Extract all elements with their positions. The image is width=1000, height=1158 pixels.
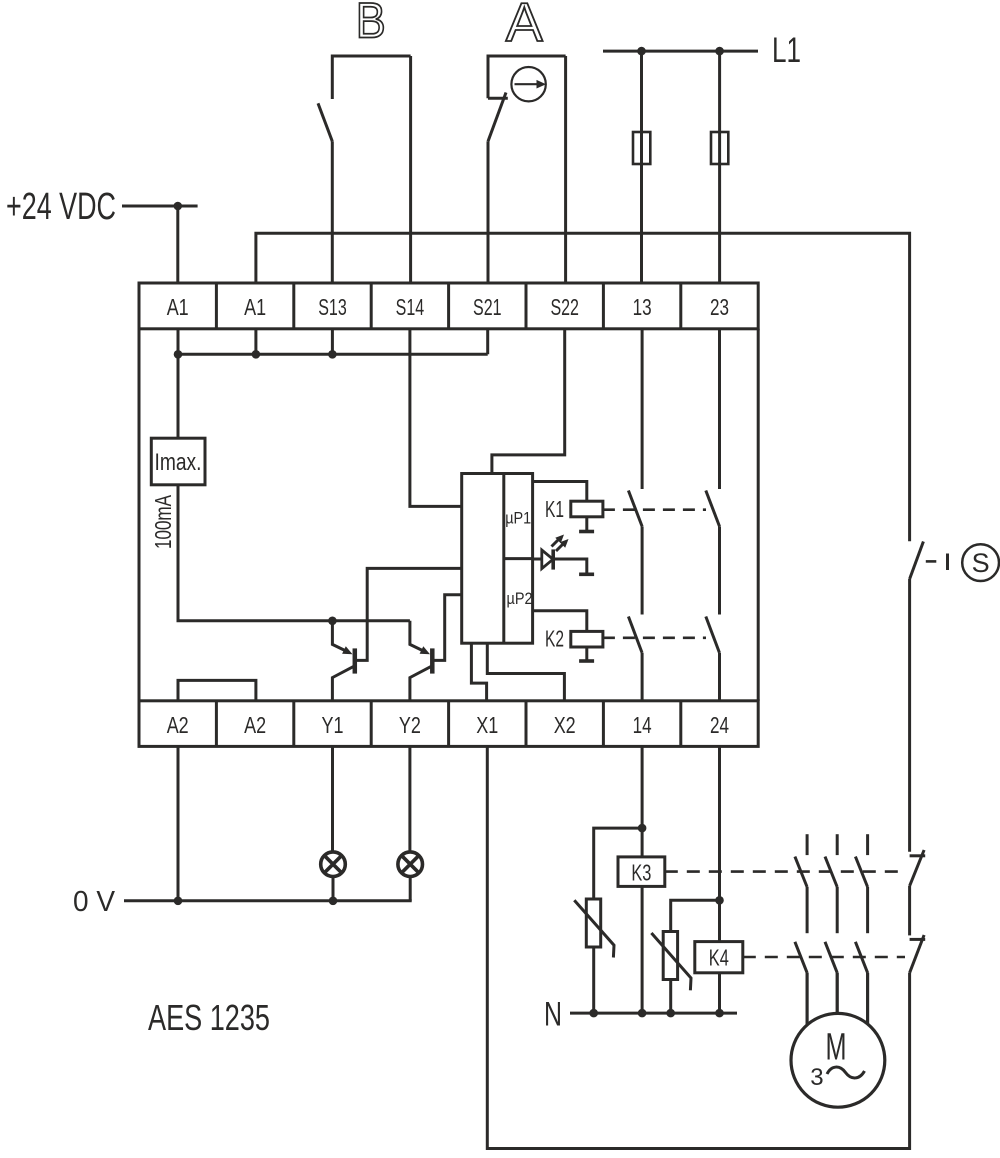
contactor coil K4 [695,942,743,973]
wire A2 to 0V [177,746,180,900]
svg-text:100mA: 100mA [150,495,176,549]
svg-text:Y1: Y1 [322,712,344,738]
wire +24 VDC feed [122,206,198,283]
svg-text:µP1: µP1 [505,509,531,528]
svg-text:3: 3 [810,1064,823,1091]
svg-text:S21: S21 [473,294,502,320]
wire between contacts 13 [641,526,644,614]
svg-text:B: B [356,0,386,49]
wire between contacts 23 [718,526,721,614]
transistor Q2 [410,595,462,701]
terminal row upper [139,283,758,329]
wire Imax to emitter rail [178,485,410,621]
wire uP to X1 [471,643,486,701]
svg-text:14: 14 [633,712,652,738]
svg-text:A1: A1 [167,294,189,320]
svg-text:A: A [506,0,543,53]
wire to varistor R1 [594,828,642,899]
junction N rail [589,1009,598,1018]
varistor R1 [574,899,614,1013]
svg-text:S14: S14 [396,294,425,320]
aux contact K4 NC [910,935,926,973]
svg-text:A1: A1 [244,294,266,320]
junction 0V A2 [174,897,183,906]
svg-text:X2: X2 [554,712,576,738]
contact K1 channel 23 [706,491,720,527]
contact K2 channel 13 [628,617,642,653]
contact K1 channel 13 [628,491,642,527]
relay coil K1 [571,501,603,517]
mechanical link K1 [603,508,706,511]
wire A1 to start loop [256,233,910,541]
switch B top bar [332,56,410,99]
wire uP to X2 [487,643,564,701]
start button S contact [910,542,948,580]
lamp H1 [321,852,346,877]
wire S to aux contacts [908,579,911,852]
junction emitter rail Q1 [328,617,337,626]
wire Y1 to lamp H1 [331,746,334,851]
svg-text:13: 13 [633,294,652,320]
fuse F2 [711,132,728,164]
wire B to S14 [409,56,412,283]
wire F2 to terminal 23 [718,51,721,283]
0V rail [124,899,412,902]
wire B to S13 [331,141,334,283]
terminal row lower [139,701,758,747]
fuse F1 [633,132,650,164]
A2 jumper link [178,680,256,700]
wire uP to K2 [533,611,587,632]
junction 24 varistor [715,896,724,905]
wire X1 feedback loop [487,746,909,1148]
svg-text:K1: K1 [545,496,564,522]
contactor K3 main contact pole 2 [825,834,837,933]
wire S22 to uP [492,329,565,474]
wire terminal 13 down [641,329,644,489]
contactor coil K3 [618,857,665,887]
microprocessor block U1 [462,474,533,644]
junction N rail [715,1009,724,1018]
wire terminal 14 to K3 [641,746,644,1013]
wire internal supply bus [178,329,488,355]
relay module outline right [757,329,760,701]
junction bus A1 [174,350,183,359]
wire lamp H2 to 0V [409,877,412,901]
svg-text:0 V: 0 V [73,886,116,918]
svg-text:K4: K4 [709,945,729,971]
svg-text:S22: S22 [550,294,579,320]
contactor K4 main contact pole 3 [855,942,867,1024]
wire Y2 to lamp H2 [408,746,411,851]
switch A contact blade [488,93,506,142]
svg-text:K3: K3 [631,859,651,885]
mechanical link K2 [603,636,706,639]
wire F1 to terminal 13 [640,51,643,283]
transistor Q1 [332,568,461,700]
aux contact K3 NC [910,850,926,886]
LED D1 [533,535,595,575]
relay coil K2 [571,631,603,647]
wire S14 to uP [410,329,462,507]
contactor K4 main contact pole 2 [825,942,837,1014]
contactor K3 main contact pole 1 [795,834,807,933]
wire poles to motor [807,973,868,1025]
junction N rail [638,1009,647,1018]
svg-text:L1: L1 [772,31,801,70]
wire A1 down to Imax [177,329,180,438]
svg-text:24: 24 [710,712,729,738]
svg-text:Y2: Y2 [399,712,421,738]
wire uP to K1 [533,482,587,502]
svg-text:X1: X1 [476,712,498,738]
wire A to S22 [564,56,567,283]
wire contact to terminal [718,653,721,701]
relay module outline left [138,329,141,701]
svg-text:AES 1235: AES 1235 [148,997,270,1038]
contactor K4 main contact pole 1 [795,942,807,1025]
junction N rail [666,1009,675,1018]
wire terminal 23 down [718,329,721,489]
junction +24VDC [174,202,183,211]
mechanical link K4 [743,956,905,959]
svg-text:µP2: µP2 [507,589,533,608]
N rail [570,1012,737,1015]
motor M1 [791,1013,885,1107]
junction 0V lamp H1 [329,897,338,906]
wire contact to terminal [641,653,644,701]
varistor R2 [651,932,691,1014]
key symbol [511,67,546,101]
svg-text:A2: A2 [244,712,266,738]
junction L1-F1 [637,47,646,56]
svg-text:A2: A2 [167,712,189,738]
mechanical link K3 [665,870,905,873]
svg-text:K2: K2 [545,626,564,652]
wire L1 [603,50,758,53]
wire A to S21 [487,141,490,283]
wire to varistor R2 [671,900,720,931]
svg-text:23: 23 [710,294,729,320]
wire between aux contacts [908,886,911,936]
svg-text:Imax.: Imax. [155,449,202,476]
junction bus S13 [328,350,337,359]
junction bus A1b [252,350,261,359]
wire terminal 24 to K4 [718,746,721,1013]
wire K1 common [579,517,594,532]
lamp H2 [398,852,423,877]
current limiter Imax [151,438,205,485]
junction L1-F2 [715,47,724,56]
contactor K3 main contact pole 3 [855,834,867,933]
svg-text:N: N [544,996,562,1034]
wire lamp H1 to 0V [332,877,335,901]
switch A top bar [488,56,566,98]
S actuator circle [962,544,999,581]
svg-text:S13: S13 [318,294,347,320]
contact K2 channel 23 [706,617,720,653]
svg-text:M: M [826,1027,847,1069]
wire K2 common [579,647,594,661]
junction 14 varistor [638,824,647,833]
svg-text:S: S [972,548,990,578]
switch A fixed contact [488,97,508,100]
switch B contact blade [318,103,332,141]
svg-text:+24 VDC: +24 VDC [6,186,116,228]
